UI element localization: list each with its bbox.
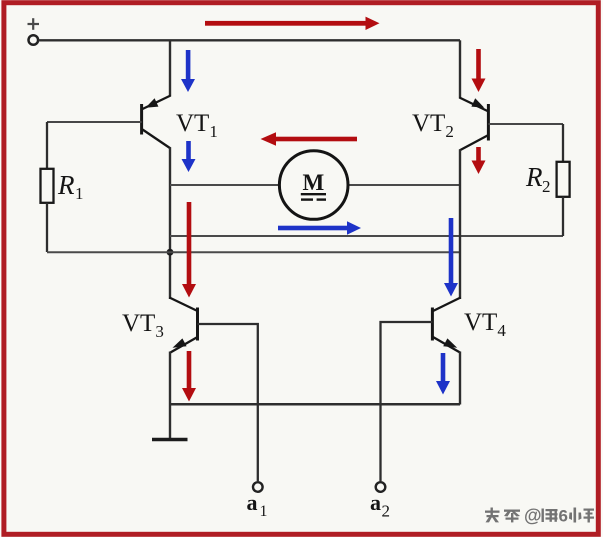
terminal circle + xyxy=(29,35,39,45)
svg-text:R: R xyxy=(525,162,543,192)
wire (VT1 collector node to R2 bottom) xyxy=(170,235,563,237)
svg-text:2: 2 xyxy=(382,502,391,521)
wire motor left xyxy=(170,184,280,186)
VT4 base wire to a2 xyxy=(381,322,433,481)
motor M xyxy=(279,151,348,220)
svg-text:@: @ xyxy=(524,506,542,526)
junction dot (VT1/VT3 column, cross wire) xyxy=(167,249,174,256)
red arrow mid (left) xyxy=(261,132,358,145)
vertical wire VT2 collector to VT4 emitter xyxy=(459,150,461,300)
vertical wire VT1 collector to VT3 emitter xyxy=(169,148,171,300)
resistor R2 xyxy=(562,124,564,162)
red arrow left long (down) xyxy=(182,202,196,298)
VT2 base wire xyxy=(488,123,563,125)
blue arrow below VT4 (down) xyxy=(436,353,450,395)
node + (positive supply) xyxy=(28,18,40,30)
svg-text:a: a xyxy=(370,490,381,515)
svg-text:M: M xyxy=(303,170,325,195)
wire drop to VT2 emitter xyxy=(459,40,461,98)
wire drop to VT1 emitter xyxy=(169,40,171,96)
wire motor right xyxy=(348,184,460,186)
blue arrow mid-left (down) xyxy=(182,141,196,172)
VT1 emitter arrowhead xyxy=(146,98,159,108)
VT1 base wire xyxy=(47,121,142,123)
transistor VT3 xyxy=(169,298,197,353)
blue arrow right long (down) xyxy=(444,218,458,297)
transistor VT4 xyxy=(432,298,460,353)
red arrow above VT2 (down) xyxy=(472,49,486,92)
svg-text:6: 6 xyxy=(559,507,568,526)
svg-text:1: 1 xyxy=(260,503,268,520)
red arrow top (right) xyxy=(205,17,380,30)
char xiao xyxy=(569,508,582,523)
svg-text:2: 2 xyxy=(542,177,551,196)
vertical wire VT4 to bottom rail xyxy=(459,352,461,405)
char xiang xyxy=(542,509,558,523)
resistor R1 xyxy=(46,122,48,169)
red arrow below VT2 (down) xyxy=(472,147,486,174)
char tiao xyxy=(504,510,520,523)
VT4 emitter arrowhead xyxy=(443,338,457,347)
VT3 base wire to a1 xyxy=(198,324,258,481)
char tou xyxy=(485,508,500,523)
watermark 头条@湘6小哥 xyxy=(485,506,594,526)
terminal a2 xyxy=(376,482,386,492)
transistor VT2 xyxy=(459,98,488,151)
ground xyxy=(152,438,188,441)
wire top rail xyxy=(38,39,460,41)
svg-text:1: 1 xyxy=(75,184,84,203)
terminal a1 xyxy=(253,482,263,492)
VT2 emitter arrowhead xyxy=(471,98,484,108)
VT3 emitter arrowhead xyxy=(173,338,187,347)
svg-text:a: a xyxy=(247,490,258,515)
red arrow left lower (down) xyxy=(182,351,196,402)
blue arrow motor (right) xyxy=(278,221,361,234)
char ge xyxy=(584,509,595,523)
transistor VT1 xyxy=(142,96,171,149)
wire bottom rail xyxy=(170,403,460,406)
blue arrow top (down) xyxy=(181,50,195,92)
vertical wire VT3 to bottom rail xyxy=(169,352,171,439)
svg-text:R: R xyxy=(57,170,75,200)
wire (R1 bottom to VT2 collector node) xyxy=(47,251,460,253)
